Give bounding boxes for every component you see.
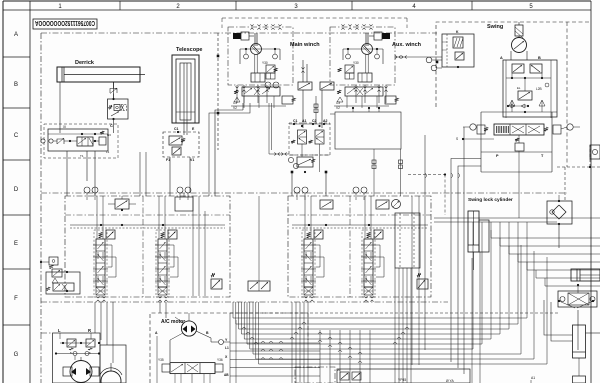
pipe grid lower fan bbox=[253, 245, 547, 364]
A/C motor label bbox=[161, 319, 185, 325]
wire telescope down bbox=[170, 157, 190, 196]
bank2 side rect bbox=[395, 213, 420, 268]
svg-text:Derrick: Derrick bbox=[75, 60, 95, 66]
pump group box bbox=[53, 333, 127, 383]
svg-text:Swing lock cylinder: Swing lock cylinder bbox=[468, 197, 513, 203]
test point 12 bbox=[431, 65, 442, 71]
AC port bus lines bbox=[230, 341, 320, 376]
node square on pilot line bbox=[217, 55, 220, 115]
wire derrick rod side bbox=[59, 82, 61, 133]
svg-text:D: D bbox=[14, 187, 19, 193]
test point 11 bbox=[426, 57, 442, 63]
column label 1 bbox=[58, 4, 62, 10]
test points near pilot box bbox=[288, 157, 298, 168]
bank internal bus bbox=[65, 215, 431, 228]
bank1 precomp valve bbox=[108, 196, 136, 211]
valve bank 2 boundary bbox=[288, 196, 431, 297]
svg-text:G: G bbox=[14, 352, 19, 358]
svg-text:C3: C3 bbox=[233, 101, 237, 105]
swing motor bbox=[511, 22, 527, 60]
bank interconnect wires bbox=[97, 196, 371, 239]
test point pair 9 10 bbox=[84, 187, 98, 200]
system boundary dash-dot top bbox=[41, 32, 437, 34]
row label D bbox=[14, 187, 19, 193]
filter dashed feeds bbox=[557, 22, 600, 201]
bank2 inlet feed bbox=[258, 196, 260, 281]
bank2 spool section 1 bbox=[301, 230, 324, 297]
svg-text:C0075611152OOOOOOOA: C0075611152OOOOOOOA bbox=[35, 19, 95, 26]
wire winch to balance feed bbox=[269, 103, 289, 156]
coupler vline right of aux area bbox=[399, 149, 403, 196]
bank2 port couplers bbox=[304, 296, 373, 301]
svg-text:A2: A2 bbox=[323, 119, 328, 123]
Main winch label bbox=[290, 42, 320, 48]
Telescope label bbox=[176, 47, 203, 53]
pilot bus dash-dot horizontal bbox=[41, 192, 567, 194]
svg-text:C: C bbox=[14, 133, 19, 139]
svg-text:Swing: Swing bbox=[487, 24, 503, 30]
svg-text:L2B: L2B bbox=[536, 87, 542, 91]
bank1 right risers bbox=[193, 196, 205, 296]
svg-text:B: B bbox=[538, 56, 541, 60]
svg-text:Aux. winch: Aux. winch bbox=[392, 42, 422, 48]
row label E bbox=[14, 241, 18, 247]
pump circle 2 bbox=[100, 363, 122, 383]
coupler line to swing upper bbox=[395, 55, 442, 58]
bottom label YA bbox=[446, 379, 455, 383]
main winch assembly bbox=[228, 24, 293, 103]
bank1 spool section 1 bbox=[93, 230, 116, 297]
test point pair 7 8 bbox=[177, 187, 191, 200]
svg-text:Y30: Y30 bbox=[353, 61, 359, 65]
svg-text:S: S bbox=[456, 137, 458, 141]
bank1 left aux valve bbox=[52, 269, 62, 277]
Swing label bbox=[487, 24, 503, 30]
wire derrick head side bbox=[113, 82, 115, 99]
pipe grid vertical drops bbox=[292, 268, 411, 383]
svg-text:XI: XI bbox=[63, 125, 66, 129]
svg-text:Y30: Y30 bbox=[262, 61, 268, 65]
pump gauge circles bbox=[55, 352, 100, 356]
svg-text:R: R bbox=[88, 328, 91, 333]
telescope port labels bbox=[174, 127, 195, 131]
svg-text:L: L bbox=[58, 328, 61, 333]
svg-text:V2: V2 bbox=[336, 106, 340, 110]
column label 2 bbox=[176, 4, 180, 10]
swing boundary dashed bbox=[436, 22, 591, 107]
svg-text:20: 20 bbox=[337, 368, 341, 372]
pipe grid bus lines bbox=[233, 222, 527, 349]
bottom right box bbox=[573, 358, 586, 383]
bottom right connector box bbox=[531, 376, 535, 383]
svg-text:YP45: YP45 bbox=[398, 378, 406, 382]
bottom label YP45 bbox=[398, 378, 406, 382]
bank1 pilot header rect bbox=[175, 193, 193, 211]
svg-text:C3: C3 bbox=[336, 101, 340, 105]
valve bank 1 boundary bbox=[65, 196, 230, 297]
test point pair 13 14 bbox=[265, 82, 279, 88]
AC port labels bbox=[224, 338, 229, 377]
svg-text:Ø YA: Ø YA bbox=[446, 379, 455, 383]
bank2 spool section 2 bbox=[361, 230, 384, 297]
junction manifold box bbox=[335, 107, 401, 149]
accumulator bbox=[544, 300, 600, 358]
svg-text:Main winch: Main winch bbox=[290, 42, 320, 48]
svg-text:A1: A1 bbox=[302, 119, 307, 123]
winch shuttle block 1 bbox=[298, 82, 312, 90]
bottom pilot valve box bbox=[295, 367, 470, 383]
bank1 spool section 2 bbox=[155, 230, 178, 297]
pump check valve R bbox=[86, 339, 100, 355]
svg-text:E: E bbox=[14, 241, 18, 247]
svg-text:C1: C1 bbox=[293, 119, 298, 123]
AC motor group boundary bbox=[150, 313, 308, 383]
small check component right bbox=[590, 145, 600, 159]
svg-text:A: A bbox=[14, 32, 18, 38]
svg-text:C1: C1 bbox=[174, 127, 179, 131]
wire pilot boxes down bbox=[292, 172, 326, 196]
bank2 inlet section bbox=[248, 281, 270, 291]
system boundary dash-dot left bbox=[40, 33, 42, 333]
svg-text:A1: A1 bbox=[531, 376, 535, 380]
bank2 gauge circle bbox=[392, 200, 401, 209]
derrick cylinder bbox=[57, 67, 145, 82]
manifold dropper left bbox=[372, 149, 376, 196]
bank2 relief valve bbox=[417, 273, 428, 289]
column dividers top band bbox=[120, 1, 472, 10]
swing motor ports bbox=[500, 56, 541, 60]
row dividers left band bbox=[3, 57, 30, 325]
line to manifold bbox=[330, 113, 335, 115]
AC valve block bbox=[158, 358, 223, 383]
swing valve port labels bbox=[456, 137, 544, 158]
derrick control valve bbox=[41, 124, 118, 158]
test point pair 3 4 bbox=[353, 187, 367, 200]
node square top right bbox=[436, 61, 439, 64]
bank1 left shuttle valve bbox=[40, 257, 58, 268]
right bus y222 bbox=[434, 218, 600, 222]
column label 4 bbox=[412, 4, 416, 10]
svg-text:L1: L1 bbox=[225, 346, 229, 350]
row label A bbox=[14, 32, 18, 38]
wire main winch P riser bbox=[209, 103, 250, 196]
hose crossing loops bbox=[242, 322, 409, 363]
AC riser wires bbox=[230, 313, 236, 383]
main winch counterbalance cluster bbox=[231, 87, 296, 110]
svg-text:V2: V2 bbox=[233, 106, 237, 110]
svg-text:F1: F1 bbox=[166, 158, 170, 162]
wire C to derrick valve bbox=[113, 82, 115, 133]
winch subsystem dashed boundary bbox=[222, 18, 407, 28]
bank1 inlet box bbox=[46, 272, 80, 294]
winch shuttle block 2 bbox=[320, 82, 334, 90]
row label G bbox=[14, 352, 19, 358]
aux winch assembly bbox=[330, 24, 395, 103]
pump check valve L bbox=[62, 339, 82, 355]
swing lock risers bbox=[472, 252, 480, 383]
wire bank1 to pumps bbox=[95, 302, 166, 363]
wire winch risers bbox=[301, 60, 322, 128]
return filter bbox=[547, 195, 572, 248]
wire derrick valve down bbox=[67, 151, 146, 196]
flushing valve block bbox=[558, 284, 597, 308]
swing valve frame bbox=[462, 112, 552, 218]
Swing lock cylinder label bbox=[468, 197, 513, 203]
svg-text:EL: EL bbox=[517, 86, 521, 90]
AC motor wires bbox=[155, 331, 230, 383]
swing lock cylinder bbox=[468, 211, 489, 270]
svg-text:T1: T1 bbox=[80, 154, 84, 158]
AC motor circle bbox=[175, 313, 197, 336]
swing relief block bbox=[503, 60, 557, 118]
svg-text:C2: C2 bbox=[312, 119, 317, 123]
svg-text:N3: N3 bbox=[107, 133, 111, 137]
AC valve block drains bbox=[175, 374, 210, 383]
swing brake valve box bbox=[442, 30, 474, 68]
bank1 port couplers bbox=[96, 296, 167, 301]
bank2 precomp valve 1 bbox=[320, 200, 333, 209]
long risers to swing bbox=[408, 127, 481, 374]
row label C bbox=[14, 133, 19, 139]
telescope cylinder bbox=[172, 55, 199, 135]
bank2 precomp valve 2 bbox=[376, 200, 389, 209]
telescope valve port labels bbox=[166, 158, 194, 162]
svg-text:Telescope: Telescope bbox=[176, 47, 203, 53]
svg-text:V1: V1 bbox=[190, 158, 194, 162]
svg-text:L1: L1 bbox=[106, 150, 110, 154]
aux winch counterbalance cluster bbox=[334, 87, 399, 110]
Aux. winch label bbox=[392, 42, 422, 48]
Derrick label bbox=[75, 60, 95, 66]
right edge fan lines bbox=[491, 230, 600, 286]
system boundary bottom dash-dot bbox=[41, 301, 448, 303]
row label F bbox=[14, 296, 18, 302]
main winch pilot valve assembly bbox=[289, 119, 330, 173]
pump L R labels bbox=[58, 328, 91, 333]
svg-text:A: A bbox=[500, 56, 503, 60]
pump group outer dashed bbox=[41, 333, 53, 383]
test point pair 5 6 bbox=[294, 187, 308, 200]
svg-text:F: F bbox=[14, 296, 18, 302]
pilot supply dashed vertical x218 bbox=[217, 33, 219, 150]
pilot drain dashed bus bbox=[230, 312, 560, 314]
counterbalance valve C box bbox=[108, 88, 129, 128]
svg-text:B: B bbox=[14, 82, 18, 88]
horizontal cylinder right bbox=[571, 269, 600, 281]
svg-text:AB: AB bbox=[224, 373, 229, 377]
bank1 relief valve bbox=[211, 273, 222, 289]
bank1 inlet valve bbox=[46, 271, 74, 292]
column label 5 bbox=[529, 4, 533, 10]
pump wires bbox=[60, 333, 91, 360]
svg-text:Y35: Y35 bbox=[158, 358, 164, 362]
row label B bbox=[14, 82, 18, 88]
swing prop valve bbox=[463, 104, 580, 135]
drawing number box bbox=[33, 19, 97, 29]
svg-text:Y36: Y36 bbox=[217, 358, 223, 362]
pump circle 1 bbox=[63, 357, 99, 383]
column label 3 bbox=[294, 4, 298, 10]
telescope holding valve bbox=[163, 131, 199, 157]
